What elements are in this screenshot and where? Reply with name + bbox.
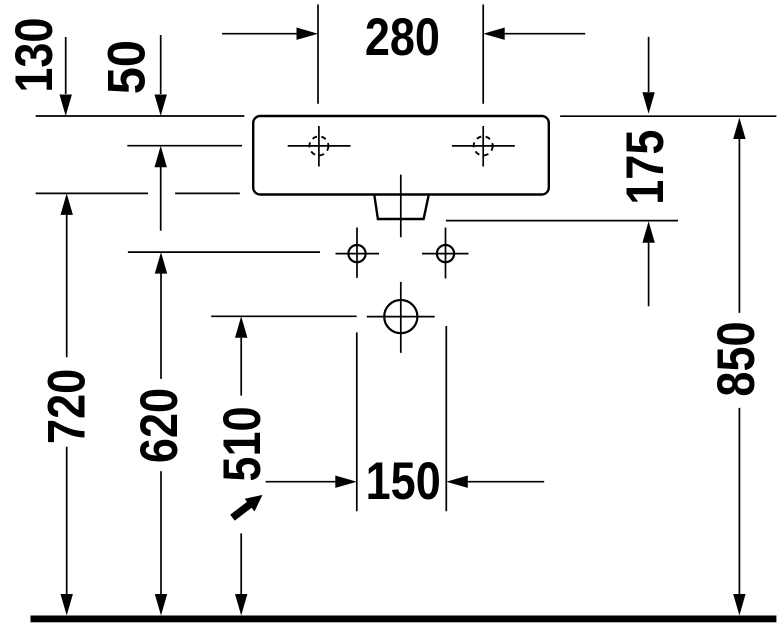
faucet level line — [127, 145, 242, 147]
dimension 510 line lower — [240, 533, 242, 594]
dimension 620 line upper — [160, 274, 162, 379]
dimension 175 lower arrow — [648, 243, 650, 307]
dimension 150 right arrow — [467, 481, 544, 483]
svg-text:130: 130 — [5, 18, 64, 93]
dimension 620 line lower — [160, 471, 162, 594]
basin bottom level line — [36, 192, 240, 194]
dimension 280 extension lines — [318, 5, 483, 104]
dimension 280 left arrow — [222, 33, 297, 35]
datum line basin top left — [36, 115, 245, 117]
dimension 850 line upper — [738, 139, 740, 313]
mounting hole level line — [128, 251, 320, 253]
basin center line — [400, 175, 402, 353]
outlet direction pointer arrow — [233, 495, 263, 518]
lower basin level line right — [446, 220, 678, 222]
dimension 50 upper arrow — [160, 35, 162, 94]
svg-text:150: 150 — [366, 452, 441, 511]
drain level line — [211, 315, 356, 317]
right faucet hole — [452, 126, 515, 167]
dimension 720 line upper — [66, 215, 68, 357]
svg-text:720: 720 — [37, 369, 96, 444]
svg-text:620: 620 — [130, 388, 189, 463]
svg-text:510: 510 — [213, 406, 272, 481]
dimension 510 line upper — [240, 338, 242, 396]
svg-text:50: 50 — [97, 40, 156, 94]
left faucet hole — [288, 126, 351, 167]
left mounting hole — [336, 228, 380, 278]
dimension 175 upper arrow — [648, 37, 650, 92]
dimension 50 lower arrow — [160, 167, 162, 231]
svg-text:850: 850 — [707, 321, 766, 396]
svg-text:280: 280 — [365, 8, 440, 67]
datum line basin top right — [560, 115, 776, 117]
floor line — [31, 616, 777, 623]
dimension 150 extension lines — [357, 326, 447, 511]
svg-text:175: 175 — [616, 130, 675, 205]
drain spout trapezoid — [374, 196, 428, 220]
right mounting hole — [422, 228, 469, 279]
dimension 130 arrow — [65, 37, 67, 94]
dimension 720 line lower — [66, 447, 68, 594]
basin outline — [253, 116, 549, 195]
dimension 850 line lower — [738, 408, 740, 594]
drain hole circle — [367, 300, 435, 333]
dimension 150 left arrow — [266, 481, 336, 483]
dimension 280 right arrow — [505, 33, 586, 35]
